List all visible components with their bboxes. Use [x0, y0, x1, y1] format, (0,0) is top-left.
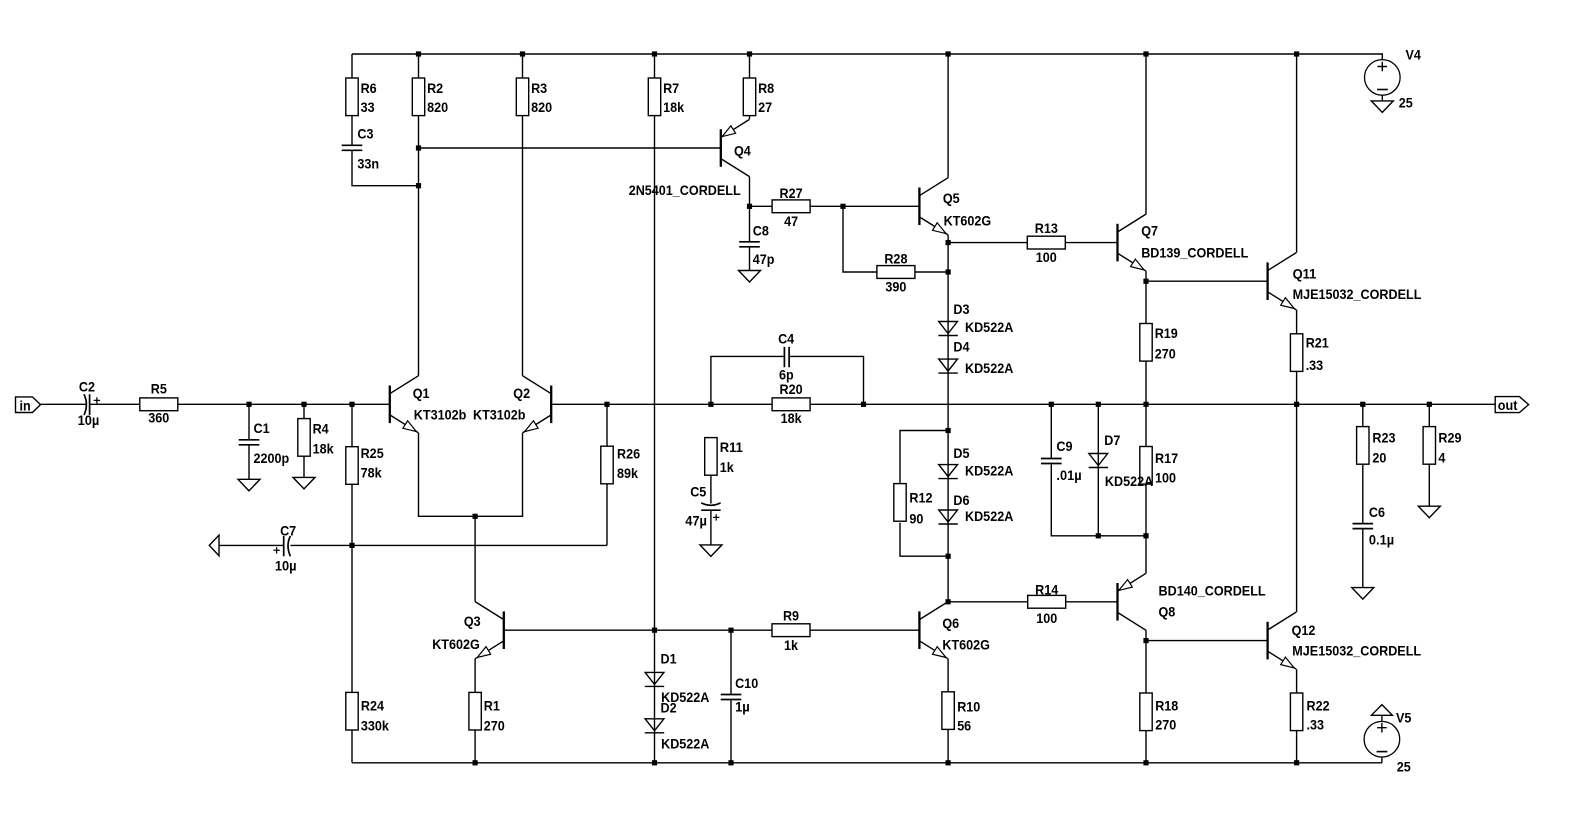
port arrow (feedback return) [209, 535, 219, 556]
svg-text:47: 47 [784, 213, 798, 229]
wire [1145, 271, 1147, 404]
svg-text:R13: R13 [1035, 220, 1058, 236]
junction [946, 599, 951, 604]
wire [1381, 95, 1383, 101]
diode D1 [645, 651, 710, 706]
wire [352, 762, 1382, 764]
svg-text:R12: R12 [909, 490, 932, 506]
junction [1143, 402, 1148, 407]
resistor R21 [1290, 334, 1329, 373]
junction [520, 51, 525, 56]
svg-text:.33: .33 [1307, 717, 1325, 733]
ground [238, 479, 260, 491]
svg-text:R3: R3 [531, 80, 547, 96]
svg-text:C10: C10 [735, 675, 758, 691]
svg-text:Q6: Q6 [942, 615, 959, 631]
capacitor C1 [239, 420, 290, 466]
svg-text:D2: D2 [661, 699, 677, 715]
svg-text:R17: R17 [1155, 450, 1178, 466]
svg-text:33n: 33n [357, 156, 379, 172]
wire [419, 433, 523, 602]
wire [504, 629, 920, 631]
svg-text:C8: C8 [753, 222, 769, 238]
wire [1051, 404, 1146, 536]
diode D7 [1089, 432, 1154, 489]
svg-text:V5: V5 [1396, 710, 1412, 726]
wire [1296, 310, 1298, 405]
svg-text:1k: 1k [720, 459, 734, 475]
junction [652, 628, 657, 633]
ground [700, 545, 722, 557]
capacitor C7 [273, 522, 296, 573]
wire [1428, 404, 1430, 506]
svg-text:2N5401_CORDELL: 2N5401_CORDELL [629, 182, 741, 198]
transistor Q11 [1268, 253, 1422, 310]
svg-text:C6: C6 [1369, 504, 1385, 520]
svg-text:R11: R11 [720, 439, 743, 455]
wire [1146, 640, 1268, 642]
transistor Q4 [629, 119, 751, 197]
wire [900, 431, 948, 557]
svg-text:R25: R25 [361, 445, 384, 461]
resistor R12 [894, 484, 933, 527]
svg-text:6p: 6p [779, 367, 794, 383]
wire [1296, 404, 1298, 612]
svg-text:78k: 78k [361, 465, 382, 481]
junction [246, 402, 251, 407]
ground [293, 477, 315, 489]
transistor Q7 [1118, 214, 1249, 271]
junction [416, 145, 421, 150]
svg-text:out: out [1498, 397, 1518, 413]
junction [728, 760, 733, 765]
resistor R22 [1290, 693, 1329, 733]
junction [747, 204, 752, 209]
svg-text:Q4: Q4 [734, 143, 751, 159]
svg-text:KD522A: KD522A [965, 463, 1013, 479]
svg-text:KT602G: KT602G [942, 636, 990, 652]
svg-text:KT602G: KT602G [432, 636, 480, 652]
wire [352, 54, 419, 186]
junction [840, 204, 845, 209]
wire [522, 54, 524, 376]
junction [946, 554, 951, 559]
capacitor C2 [78, 379, 101, 428]
wire [352, 54, 1382, 60]
svg-text:R28: R28 [884, 250, 907, 266]
voltage source V5 [1364, 710, 1411, 775]
capacitor C4 [711, 331, 864, 405]
capacitor C6 [1353, 504, 1395, 548]
junction [349, 402, 354, 407]
svg-text:D4: D4 [953, 338, 969, 354]
resistor R7 [648, 78, 684, 116]
svg-text:KD522A: KD522A [661, 735, 709, 751]
port in [16, 397, 41, 414]
svg-text:C2: C2 [79, 379, 95, 395]
svg-text:Q12: Q12 [1292, 622, 1316, 638]
svg-text:56: 56 [957, 717, 971, 733]
svg-text:R1: R1 [484, 698, 500, 714]
svg-text:C4: C4 [778, 331, 794, 347]
junction [1427, 402, 1432, 407]
svg-text:90: 90 [909, 510, 923, 526]
svg-text:330k: 330k [361, 718, 389, 734]
svg-text:820: 820 [427, 99, 448, 115]
svg-text:in: in [20, 398, 31, 414]
svg-text:KD522A: KD522A [965, 360, 1013, 376]
wire [749, 177, 751, 271]
svg-text:10µ: 10µ [78, 412, 100, 428]
wire [730, 630, 732, 763]
svg-text:C3: C3 [357, 125, 373, 141]
diode D2 [645, 699, 710, 751]
resistor R19 [1140, 324, 1178, 362]
svg-text:KD522A: KD522A [965, 319, 1013, 335]
svg-text:1k: 1k [784, 637, 798, 653]
resistor R8 [743, 78, 774, 116]
transistor Q5 [919, 178, 991, 235]
wire [418, 54, 420, 376]
svg-text:R5: R5 [151, 381, 167, 397]
ground [1352, 588, 1374, 600]
svg-text:C5: C5 [690, 484, 706, 500]
resistor R6 [346, 78, 377, 116]
svg-text:R4: R4 [313, 420, 329, 436]
svg-text:D3: D3 [953, 301, 969, 317]
junction [946, 269, 951, 274]
resistor R13 [1027, 220, 1065, 265]
svg-text:BD139_CORDELL: BD139_CORDELL [1141, 244, 1248, 260]
wire [351, 404, 353, 763]
svg-text:R18: R18 [1155, 698, 1178, 714]
svg-text:100: 100 [1036, 249, 1057, 265]
ground [1418, 506, 1440, 518]
wire [947, 54, 949, 178]
junction [1294, 51, 1299, 56]
svg-text:18k: 18k [663, 99, 684, 115]
ground [1371, 705, 1392, 716]
wire [1146, 280, 1268, 282]
svg-text:R24: R24 [361, 698, 384, 714]
svg-text:100: 100 [1155, 470, 1176, 486]
svg-text:D6: D6 [953, 492, 969, 508]
junction [1294, 760, 1299, 765]
svg-text:KT3102b: KT3102b [473, 407, 526, 423]
resistor R1 [469, 692, 505, 733]
svg-text:MJE15032_CORDELL: MJE15032_CORDELL [1292, 643, 1421, 659]
svg-text:360: 360 [148, 410, 169, 426]
junction [946, 428, 951, 433]
capacitor C8 [739, 222, 774, 267]
resistor R2 [412, 78, 448, 116]
svg-text:2200p: 2200p [254, 450, 290, 466]
resistor R26 [601, 445, 640, 483]
junction [604, 402, 609, 407]
wire [1097, 404, 1099, 536]
resistor R25 [346, 445, 384, 484]
svg-text:Q11: Q11 [1293, 266, 1317, 282]
svg-text:R14: R14 [1035, 582, 1058, 598]
wire [1145, 54, 1147, 214]
svg-text:R23: R23 [1372, 430, 1395, 446]
resistor R11 [705, 438, 743, 476]
svg-text:R6: R6 [361, 80, 377, 96]
svg-text:R21: R21 [1306, 334, 1329, 350]
resistor R20 [772, 381, 810, 426]
capacitor C10 [721, 675, 759, 715]
junction [1143, 533, 1148, 538]
wire [303, 404, 305, 477]
svg-text:KT3102b: KT3102b [414, 407, 467, 423]
resistor R29 [1423, 427, 1462, 466]
wire [219, 544, 607, 546]
wire [606, 404, 608, 545]
svg-text:R2: R2 [427, 80, 443, 96]
wire [1145, 641, 1147, 763]
svg-text:KT602G: KT602G [944, 213, 992, 229]
junction [473, 514, 478, 519]
svg-text:270: 270 [484, 717, 505, 733]
svg-text:R7: R7 [663, 80, 679, 96]
junction [1143, 51, 1148, 56]
capacitor C9 [1041, 438, 1082, 483]
transistor Q8 [1118, 573, 1266, 630]
junction [946, 240, 951, 245]
svg-text:Q2: Q2 [513, 385, 530, 401]
svg-text:25: 25 [1399, 95, 1413, 111]
resistor R23 [1357, 427, 1396, 466]
junction [946, 51, 951, 56]
transistor Q6 [919, 602, 990, 659]
svg-text:47p: 47p [753, 251, 775, 267]
junction [416, 183, 421, 188]
svg-text:Q1: Q1 [413, 385, 430, 401]
svg-text:.01µ: .01µ [1056, 467, 1081, 483]
wire [749, 54, 751, 119]
svg-text:R10: R10 [957, 698, 980, 714]
ground [1371, 101, 1393, 113]
wire [843, 206, 948, 272]
diode D3 [938, 301, 1013, 336]
svg-text:R26: R26 [617, 445, 640, 461]
svg-text:100: 100 [1036, 610, 1057, 626]
svg-text:D1: D1 [661, 651, 677, 667]
resistor R14 [1028, 582, 1066, 626]
wire [947, 235, 949, 602]
junction [652, 760, 657, 765]
svg-text:.33: .33 [1306, 357, 1324, 373]
svg-text:390: 390 [885, 279, 906, 295]
junction [1096, 402, 1101, 407]
svg-text:R22: R22 [1307, 698, 1330, 714]
junction [301, 402, 306, 407]
junction [1143, 279, 1148, 284]
resistor R5 [140, 381, 178, 426]
wire [248, 404, 250, 479]
wire [41, 403, 87, 405]
junction [1049, 402, 1054, 407]
wire [948, 242, 1117, 244]
junction [652, 51, 657, 56]
wire [947, 659, 949, 763]
wire [1145, 404, 1147, 536]
resistor R10 [942, 692, 981, 734]
svg-text:R27: R27 [780, 185, 803, 201]
junction [1143, 638, 1148, 643]
transistor Q1 [390, 376, 467, 433]
svg-text:R20: R20 [780, 381, 803, 397]
resistor R3 [516, 78, 552, 116]
diode D4 [938, 338, 1013, 376]
wire [1296, 54, 1298, 253]
resistor R27 [772, 185, 810, 229]
svg-text:D7: D7 [1104, 432, 1120, 448]
svg-text:270: 270 [1155, 345, 1176, 361]
resistor R18 [1140, 693, 1179, 733]
wire [551, 403, 1495, 405]
wire [1145, 536, 1147, 641]
wire [948, 601, 1117, 603]
junction [1143, 760, 1148, 765]
resistor R28 [877, 250, 915, 294]
svg-text:10µ: 10µ [275, 558, 297, 574]
wire [1381, 757, 1383, 763]
svg-text:0.1µ: 0.1µ [1369, 531, 1394, 547]
svg-text:KD522A: KD522A [1105, 473, 1153, 489]
svg-text:KD522A: KD522A [965, 508, 1013, 524]
junction [1360, 402, 1365, 407]
junction [1294, 402, 1299, 407]
wire [750, 205, 920, 207]
junction [416, 51, 421, 56]
diode D5 [938, 445, 1013, 479]
svg-text:D5: D5 [953, 445, 969, 461]
svg-text:MJE15032_CORDELL: MJE15032_CORDELL [1293, 286, 1422, 302]
svg-text:Q3: Q3 [464, 613, 481, 629]
svg-text:R19: R19 [1155, 325, 1178, 341]
transistor Q2 [473, 376, 551, 433]
svg-text:18k: 18k [781, 410, 802, 426]
svg-text:C9: C9 [1056, 438, 1072, 454]
diode D6 [938, 492, 1013, 524]
wire [1381, 715, 1383, 721]
svg-text:27: 27 [758, 99, 772, 115]
svg-text:89k: 89k [617, 465, 638, 481]
svg-text:20: 20 [1372, 449, 1386, 465]
junction [708, 402, 713, 407]
wire [1296, 669, 1298, 763]
junction [861, 402, 866, 407]
wire [1362, 404, 1364, 587]
wire [654, 54, 656, 763]
voltage source V4 [1365, 46, 1422, 110]
junction [473, 760, 478, 765]
svg-text:Q7: Q7 [1141, 223, 1158, 239]
svg-text:Q8: Q8 [1159, 604, 1176, 620]
resistor R4 [298, 419, 334, 457]
svg-text:820: 820 [531, 99, 552, 115]
svg-text:25: 25 [1397, 759, 1411, 775]
resistor R17 [1140, 447, 1178, 486]
junction [747, 51, 752, 56]
capacitor C3 [342, 125, 379, 171]
svg-text:R29: R29 [1438, 430, 1461, 446]
junction [946, 760, 951, 765]
transistor Q3 [432, 602, 504, 659]
svg-text:47µ: 47µ [685, 512, 707, 528]
wire [90, 403, 390, 405]
ground [739, 271, 761, 283]
svg-text:R8: R8 [758, 80, 774, 96]
junction [1096, 533, 1101, 538]
svg-text:C7: C7 [280, 522, 296, 538]
svg-text:BD140_CORDELL: BD140_CORDELL [1159, 583, 1266, 599]
svg-text:C1: C1 [254, 420, 270, 436]
resistor R24 [346, 692, 389, 733]
svg-text:Q5: Q5 [943, 190, 960, 206]
wire [474, 659, 476, 763]
junction [349, 543, 354, 548]
svg-text:270: 270 [1155, 717, 1176, 733]
capacitor C5 [685, 475, 720, 545]
wire [419, 147, 721, 149]
resistor R9 [772, 608, 810, 653]
svg-text:4: 4 [1438, 449, 1445, 465]
svg-text:R9: R9 [783, 608, 799, 624]
transistor Q12 [1268, 612, 1422, 669]
svg-text:33: 33 [361, 99, 375, 115]
svg-text:1µ: 1µ [735, 699, 750, 715]
svg-text:V4: V4 [1406, 46, 1422, 62]
svg-text:18k: 18k [313, 441, 334, 457]
junction [728, 628, 733, 633]
port out [1495, 397, 1528, 413]
